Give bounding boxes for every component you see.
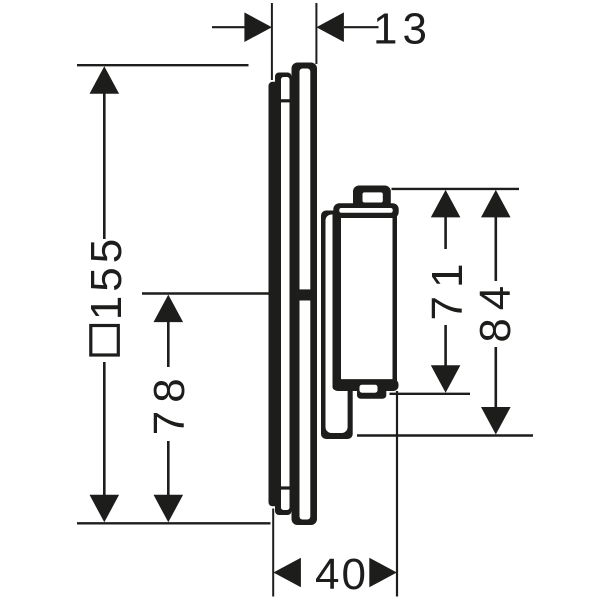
svg-text:71: 71	[423, 256, 472, 321]
dim 155 line upper	[103, 92, 106, 239]
top rim cap	[333, 203, 398, 218]
arrow 40 left-pointing	[273, 558, 301, 588]
bottom rim	[333, 379, 399, 391]
arrow 78 up	[154, 295, 184, 323]
arrow 84 down	[481, 407, 511, 435]
plate back tier	[269, 82, 280, 507]
dim 155 line lower	[103, 362, 106, 497]
bottom tab	[357, 387, 386, 399]
arrow 13 left-pointing	[316, 12, 344, 42]
svg-text:78: 78	[145, 370, 194, 435]
svg-text:13: 13	[373, 4, 432, 53]
cartridge body face	[341, 217, 393, 379]
ref line 71 bottom	[390, 393, 471, 395]
extension line wall (top)	[271, 3, 273, 80]
cartridge body outline	[333, 212, 398, 390]
plate front tier face	[300, 69, 311, 520]
dim 84 line upper	[494, 217, 497, 281]
arrow 84 up	[481, 190, 511, 218]
plate middle tier outline	[275, 73, 292, 516]
dim 78 line upper	[167, 321, 170, 367]
sleeve interior	[326, 215, 348, 434]
svg-text:155: 155	[82, 235, 131, 320]
ref line 84 bottom	[357, 434, 533, 436]
sleeve outline	[321, 211, 353, 440]
ref line 155 top	[77, 64, 249, 66]
plate front tier outline	[292, 63, 318, 526]
dim 13 right tail	[344, 26, 379, 28]
plate joint tick lower	[281, 486, 290, 489]
dim 84 line lower	[494, 347, 497, 408]
extension line body front (bottom)	[396, 391, 398, 597]
extension line wall (bottom)	[272, 509, 274, 597]
safety knob face	[363, 192, 383, 202]
dim 78 line lower	[167, 441, 170, 495]
ref line 71/84 top	[392, 188, 520, 190]
plate joint tick upper	[281, 99, 290, 102]
centre block on plate	[299, 289, 311, 300]
arrow 155 down	[90, 495, 120, 523]
bottom notch	[360, 385, 378, 393]
arrow 71 down	[431, 365, 461, 393]
arrow 71 up	[431, 190, 461, 218]
ref line 155/78 bottom	[77, 522, 271, 524]
arrow 13 right-pointing	[244, 12, 272, 42]
extension line plate front (top)	[315, 3, 317, 64]
plate middle tier face	[281, 77, 290, 510]
ref line 78 top	[142, 292, 301, 295]
top rim slit	[339, 208, 392, 213]
svg-text:40: 40	[315, 550, 368, 599]
safety knob outline	[353, 186, 391, 210]
arrow 40 right-pointing	[369, 558, 397, 588]
dim 71 line lower	[444, 325, 447, 367]
dim 71 line upper	[444, 217, 447, 249]
arrow 78 down	[154, 495, 184, 523]
dim 13 left tail	[212, 26, 247, 28]
svg-text:84: 84	[471, 278, 520, 343]
label square symbol	[91, 326, 119, 356]
arrow 155 up	[90, 66, 120, 94]
